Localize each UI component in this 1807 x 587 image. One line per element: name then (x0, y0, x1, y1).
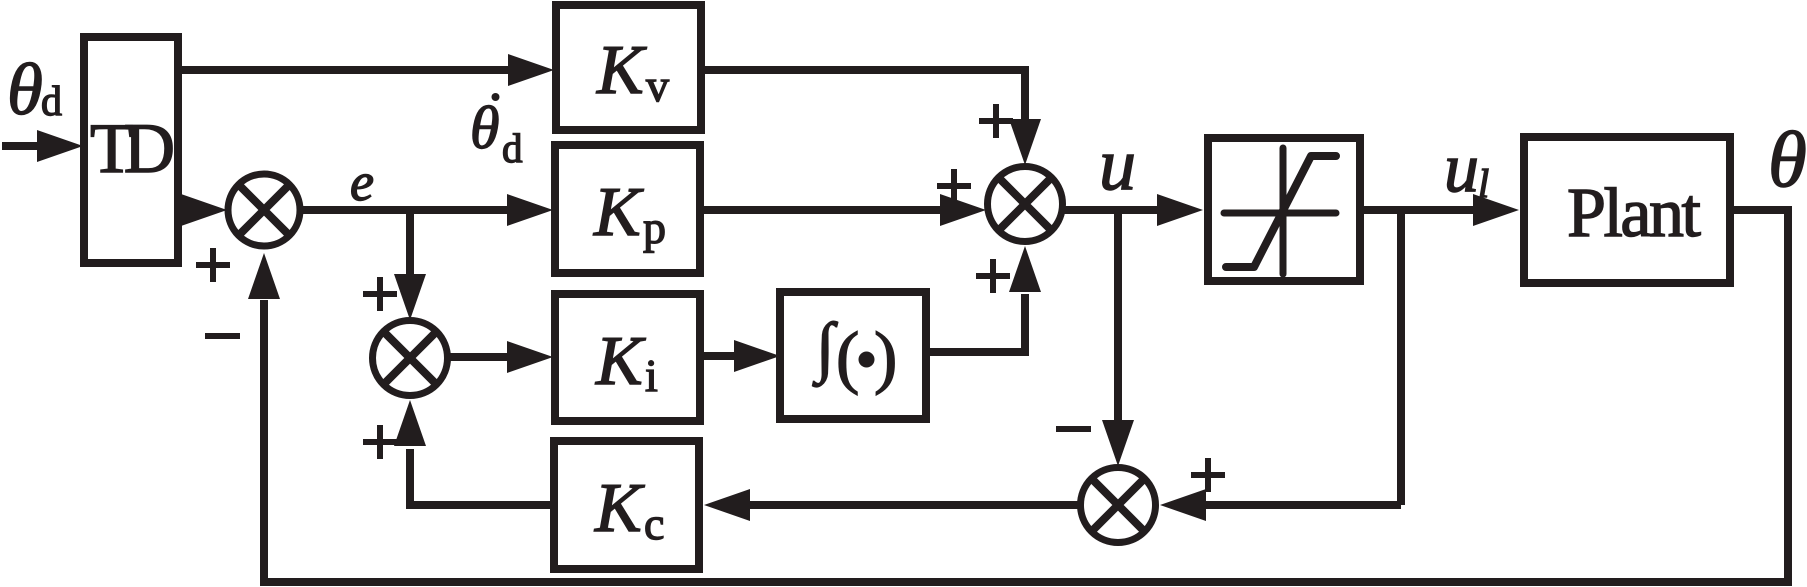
block Plant (1524, 137, 1730, 283)
wire u branch down to S4 (1114, 210, 1122, 420)
sign plus S3 top (979, 104, 1013, 138)
wire S3 to saturation (1060, 206, 1158, 214)
svg-text:i: i (645, 350, 658, 401)
svg-text:TD: TD (90, 110, 175, 188)
summer S2 (373, 321, 448, 396)
wire Kc to S2 (410, 449, 554, 505)
wire input theta_d (2, 142, 40, 150)
arrow into S3 left (940, 194, 986, 226)
svg-text:Plant: Plant (1567, 175, 1702, 252)
sign plus S2 top (363, 277, 397, 311)
wire e branch down to S2 (406, 210, 414, 276)
sign plus S1 (196, 248, 230, 282)
svg-text:K: K (593, 174, 644, 251)
wire Kv to S3 (701, 70, 1025, 121)
arrow into S1 bottom (248, 253, 280, 299)
block integrator (780, 292, 926, 419)
block Kc (554, 441, 699, 569)
wire S4 to Kc (749, 501, 1078, 509)
arrow into Kc (704, 489, 750, 521)
block Kv (556, 5, 701, 130)
svg-text:l: l (1478, 161, 1489, 206)
arrow into Ki (507, 341, 553, 373)
svg-text:u: u (1444, 130, 1479, 207)
wire feedback Plant to S1 (264, 210, 1788, 582)
saturation symbol (1224, 148, 1336, 274)
sign plus S3 bottom (976, 259, 1010, 293)
summer S3 (988, 167, 1063, 242)
svg-text:K: K (594, 470, 645, 547)
block saturation (1208, 138, 1360, 281)
wire e: S1 to Kp (298, 206, 508, 214)
svg-text:∫: ∫ (812, 310, 838, 387)
summer S4 (1081, 468, 1156, 543)
arrow into S2 top (394, 274, 426, 320)
wire TD to S1 (178, 206, 184, 214)
svg-text:d: d (502, 125, 523, 171)
arrow into S3 bottom (1009, 246, 1041, 292)
svg-text:K: K (596, 32, 647, 109)
arrow into Kp (507, 194, 553, 226)
sign plus S3 left (937, 169, 971, 203)
svg-text:θ: θ (1768, 117, 1807, 204)
svg-text:e: e (350, 152, 374, 212)
block Ki (555, 294, 700, 421)
wire Kp to S3 (700, 206, 941, 214)
svg-text:v: v (646, 60, 669, 111)
svg-text:θ: θ (7, 49, 43, 130)
wire integrator to S3 (926, 294, 1025, 352)
block Kp (555, 145, 700, 273)
summer S1 (228, 174, 300, 246)
wire branch to S4 (1206, 501, 1401, 509)
arrow into Plant (1473, 194, 1519, 226)
arrow into S2 bottom (394, 400, 426, 446)
wire saturation to Plant (1364, 206, 1475, 214)
sign minus S1 (205, 333, 240, 339)
wire Ki to integrator (700, 352, 736, 360)
block TD (84, 37, 178, 263)
arrow into S4 right (1160, 489, 1206, 521)
svg-text:p: p (643, 202, 666, 253)
svg-text:u: u (1099, 124, 1136, 206)
svg-text:d: d (41, 79, 62, 125)
wire TD to Kv (178, 66, 508, 74)
svg-text:): ) (874, 319, 897, 396)
arrow into S4 top (1102, 420, 1134, 466)
svg-text:c: c (644, 498, 664, 549)
wire saturation branch down (1397, 210, 1405, 505)
wire S2 to Ki (445, 353, 508, 361)
svg-text:θ: θ (470, 95, 499, 161)
sign plus S2 bottom (363, 425, 397, 459)
sign minus u branch (1056, 426, 1091, 432)
svg-text:(: ( (836, 319, 859, 396)
svg-text:K: K (595, 323, 646, 400)
arrow into TD (37, 130, 83, 162)
arrow into S3 top (1009, 119, 1041, 165)
arrow into integrator (734, 340, 780, 372)
arrow into Kv (508, 54, 554, 86)
sign plus S4 right (1191, 458, 1225, 492)
arrow into S1 from TD (181, 194, 227, 226)
arrow into saturation (1157, 194, 1203, 226)
